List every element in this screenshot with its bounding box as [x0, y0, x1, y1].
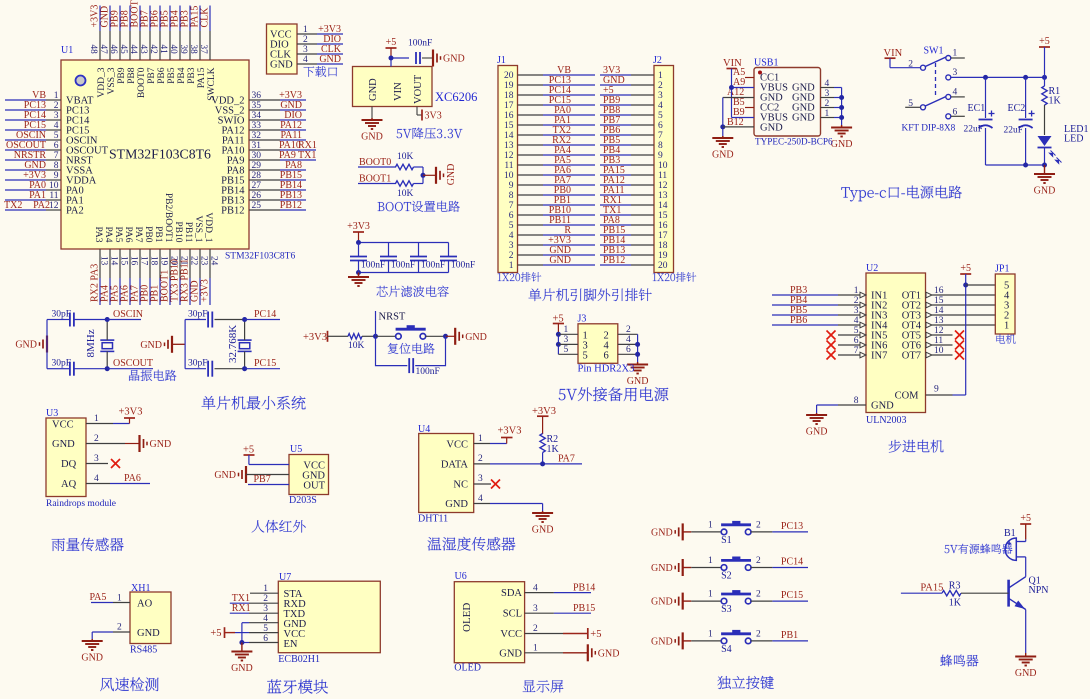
svg-text:AO: AO: [137, 599, 153, 610]
svg-text:+5: +5: [243, 445, 254, 456]
svg-text:5: 5: [583, 350, 588, 361]
wire gnd vertical: [241, 623, 243, 643]
svg-text:NRST: NRST: [379, 312, 406, 323]
svg-text:41: 41: [159, 45, 169, 55]
label fengsujiance: [100, 677, 159, 691]
svg-text:SDA: SDA: [501, 588, 522, 599]
ground: [171, 336, 173, 353]
label dulianjian: [717, 676, 773, 689]
U1 pin 36 (VDD_2) right wire: [249, 99, 280, 101]
svg-text:BOOT1: BOOT1: [359, 174, 391, 185]
svg-text:7: 7: [509, 201, 514, 211]
svg-text:EC2: EC2: [1008, 103, 1026, 114]
svg-text:33: 33: [252, 121, 262, 131]
svg-text:GND: GND: [651, 636, 673, 647]
svg-text:+3V3: +3V3: [200, 279, 211, 302]
svg-text:4: 4: [533, 583, 538, 593]
svg-text:PA4: PA4: [103, 226, 113, 242]
svg-text:14: 14: [504, 131, 514, 141]
push button S1: [683, 531, 692, 533]
svg-text:100nF: 100nF: [451, 261, 475, 271]
label J2 1X20 paizhen: [653, 272, 696, 282]
label lanyamokuai: [267, 679, 328, 693]
svg-text:1K: 1K: [1049, 96, 1062, 107]
svg-text:1: 1: [708, 520, 713, 530]
svg-text:26: 26: [252, 191, 262, 201]
svg-text:1: 1: [708, 590, 713, 600]
U1 pin 28 (PB15) right wire: [249, 179, 280, 181]
svg-text:7: 7: [658, 131, 663, 141]
svg-text:VOUT: VOUT: [413, 74, 424, 104]
push button S3: [683, 600, 692, 602]
svg-text:+5: +5: [1020, 513, 1031, 524]
svg-text:GND: GND: [52, 439, 75, 450]
U1 pin 32 (PA11) right wire: [249, 139, 280, 141]
svg-text:2: 2: [908, 60, 913, 70]
U1 pin 35 (VSS_2) right wire: [249, 109, 280, 111]
svg-text:PB7: PB7: [147, 67, 157, 84]
svg-text:1: 1: [953, 49, 958, 59]
wire switch pin3 to rail: [951, 76, 1045, 78]
module U7 body: [278, 581, 380, 653]
U2 pin 10 (OT7): [926, 352, 932, 358]
svg-text:30pF: 30pF: [52, 310, 72, 320]
U2 pin 14 (OT3): [926, 312, 932, 318]
svg-text:100nF: 100nF: [416, 367, 440, 377]
svg-text:30pF: 30pF: [188, 310, 208, 320]
svg-text:10: 10: [504, 171, 514, 181]
svg-text:48: 48: [89, 45, 99, 55]
label danpianji zuixiaoxitong: [202, 396, 306, 410]
ground: [231, 651, 252, 653]
svg-text:8: 8: [658, 141, 663, 151]
U2 pin 12 (OT5): [926, 332, 932, 338]
svg-text:R3: R3: [949, 581, 961, 592]
U5 OUT wire PB7: [248, 484, 289, 486]
svg-text:VDD_3: VDD_3: [97, 67, 107, 97]
svg-text:S1: S1: [721, 535, 732, 546]
U1 pin 15 (PA5) bottom wire: [119, 249, 121, 278]
wire VOUT to 3V3: [416, 107, 418, 116]
svg-text:100nF: 100nF: [391, 261, 415, 271]
svg-text:2: 2: [509, 251, 514, 261]
svg-text:GND: GND: [651, 563, 673, 574]
svg-text:2: 2: [756, 520, 761, 530]
wire junction: [422, 167, 424, 184]
label wenshidu chuanganqi: [428, 537, 516, 551]
svg-text:4: 4: [658, 101, 663, 111]
svg-text:32: 32: [252, 131, 262, 141]
U2 pin 15 (OT2): [926, 302, 932, 308]
svg-text:15: 15: [658, 211, 668, 221]
svg-text:1: 1: [708, 556, 713, 566]
svg-text:PA6: PA6: [124, 473, 141, 484]
svg-text:J1: J1: [497, 55, 506, 66]
svg-text:GND: GND: [150, 439, 172, 450]
label dianji: [996, 334, 1015, 344]
U2 pin 11 (OT6): [926, 342, 932, 348]
svg-text:OLED: OLED: [454, 663, 481, 674]
svg-text:1: 1: [533, 644, 538, 654]
svg-text:1: 1: [509, 261, 514, 271]
capacitor EC2 22uF: [1025, 77, 1027, 118]
U1 pin 23 (VSS_1) bottom wire: [199, 249, 201, 278]
U1 pin 34 (SWIO) right wire: [249, 119, 280, 121]
ground: [446, 335, 456, 337]
svg-text:3: 3: [478, 474, 483, 484]
svg-text:2: 2: [94, 434, 99, 444]
resistor 10K upper: [396, 164, 414, 169]
svg-text:NPN: NPN: [1029, 585, 1049, 596]
U1 pin 27 (PB14) right wire: [249, 189, 280, 191]
wire top rail: [359, 242, 449, 244]
svg-text:9: 9: [658, 151, 663, 161]
U1 pin 12 (PA2) left wire: [5, 209, 46, 211]
svg-text:2: 2: [756, 556, 761, 566]
svg-text:+5: +5: [590, 629, 601, 640]
svg-text:S4: S4: [721, 644, 732, 655]
svg-text:PB7: PB7: [254, 474, 271, 485]
svg-text:S3: S3: [721, 604, 732, 615]
svg-text:PA3: PA3: [93, 226, 103, 242]
U1 pin 44 (BOOT0) top wire: [139, 6, 141, 32]
label J1 1X20 paizhen: [498, 272, 541, 282]
push button S4: [683, 640, 692, 642]
svg-text:PB12: PB12: [280, 200, 302, 211]
svg-text:9: 9: [54, 171, 59, 181]
svg-text:15: 15: [504, 121, 514, 131]
svg-text:13: 13: [658, 191, 668, 201]
svg-text:GND: GND: [712, 150, 734, 161]
svg-text:S2: S2: [721, 571, 732, 582]
ground: [138, 435, 140, 452]
MCU U1 body: [61, 60, 249, 249]
resistor R2 1K: [540, 434, 545, 453]
svg-text:17: 17: [504, 101, 514, 111]
ground: [435, 167, 437, 184]
svg-text:TX2: TX2: [4, 200, 22, 211]
svg-text:2: 2: [478, 454, 483, 464]
U1 pin 47 (VSS_3) top wire: [109, 6, 111, 32]
power +5 port: [1020, 523, 1031, 525]
svg-text:1: 1: [1004, 321, 1009, 332]
svg-text:40: 40: [169, 45, 179, 55]
svg-text:GND: GND: [792, 113, 815, 124]
download port pin 2 wire: [297, 43, 317, 45]
label yuliangchuanganqi: [52, 538, 124, 551]
svg-text:14: 14: [658, 201, 668, 211]
svg-text:GND: GND: [231, 663, 253, 674]
svg-text:GND: GND: [760, 123, 783, 134]
svg-text:GND: GND: [806, 427, 828, 438]
U2 pin 4 (IN4): [860, 322, 866, 328]
wire VIN to VBUS pins: [731, 69, 733, 118]
svg-text:44: 44: [129, 45, 139, 55]
svg-text:STM32F103C8T6: STM32F103C8T6: [225, 252, 295, 262]
svg-text:29: 29: [252, 161, 262, 171]
svg-text:11: 11: [658, 171, 667, 181]
svg-text:AQ: AQ: [61, 479, 77, 490]
svg-text:GND: GND: [627, 376, 649, 387]
svg-text:CLK: CLK: [200, 7, 211, 28]
svg-text:PB9: PB9: [117, 67, 127, 84]
svg-text:OT7: OT7: [902, 351, 921, 362]
svg-text:GND: GND: [319, 54, 341, 65]
U1 pin 11 (PA1) left wire: [5, 199, 46, 201]
svg-text:DATA: DATA: [441, 460, 469, 471]
svg-text:PB12: PB12: [603, 255, 625, 266]
svg-text:NC: NC: [453, 480, 468, 491]
net label OSCIN wire: [107, 319, 141, 321]
svg-text:DHT11: DHT11: [418, 514, 448, 525]
U1 pin 38 (PA15) top wire: [199, 6, 201, 32]
svg-text:BOOT0: BOOT0: [359, 157, 391, 168]
svg-text:B1: B1: [1004, 528, 1016, 539]
svg-text:PC15: PC15: [254, 358, 276, 369]
driver U2 body: [866, 273, 926, 413]
svg-text:18: 18: [149, 256, 159, 266]
svg-text:6: 6: [604, 350, 609, 361]
svg-text:+5: +5: [210, 628, 221, 639]
label rentihongwai: [252, 520, 306, 533]
ground: [46, 336, 48, 353]
U1 pin 14 (PA4) bottom wire: [109, 249, 111, 278]
svg-text:OLED: OLED: [461, 603, 473, 632]
svg-text:GND: GND: [831, 139, 853, 150]
U1 pin 10 (PA0) left wire: [5, 189, 46, 191]
ground: [245, 466, 247, 483]
svg-text:18: 18: [504, 91, 514, 101]
svg-text:PA5: PA5: [90, 592, 107, 603]
U1 pin 29 (PA8) right wire: [249, 169, 280, 171]
svg-text:PA7: PA7: [133, 226, 143, 242]
connector XH1 body: [130, 592, 171, 644]
U5 VCC wire: [249, 464, 289, 466]
U1 pin 30 (PA9) right wire: [249, 159, 280, 161]
U1 pin 22 (PB11) bottom wire: [189, 249, 191, 278]
svg-text:GND: GND: [651, 597, 673, 608]
ground: [371, 118, 373, 120]
svg-text:2: 2: [756, 629, 761, 639]
svg-text:2: 2: [533, 624, 538, 634]
svg-text:J3: J3: [578, 314, 587, 325]
svg-text:22uF: 22uF: [964, 125, 984, 135]
svg-text:JP1: JP1: [995, 264, 1009, 275]
svg-text:+5: +5: [960, 263, 971, 274]
svg-text:12: 12: [49, 201, 59, 211]
U1 pin 6 (OSCOUT) left wire: [5, 149, 46, 151]
label 5V waijie beiyongdianyuan: [559, 387, 669, 401]
svg-text:GND: GND: [1034, 186, 1056, 197]
U1 pin 46 (PB9) top wire: [119, 6, 121, 32]
svg-text:IN7: IN7: [871, 351, 887, 362]
svg-text:PC15: PC15: [781, 590, 803, 601]
capacitor 100nF filter 2: [388, 243, 390, 257]
wire bottom rail: [986, 164, 1045, 166]
svg-text:PB11: PB11: [183, 222, 193, 243]
svg-text:TYPEC-250D-BCP6: TYPEC-250D-BCP6: [755, 137, 833, 147]
wire GND pin: [371, 107, 373, 119]
svg-text:Pin HDR2X3: Pin HDR2X3: [578, 364, 635, 375]
label bujindianji: [889, 440, 944, 453]
svg-text:34: 34: [252, 111, 262, 121]
ground: [1044, 165, 1046, 174]
svg-text:20: 20: [504, 71, 514, 81]
U1 pin 26 (PB13) right wire: [249, 199, 280, 201]
svg-text:10K: 10K: [397, 189, 414, 199]
svg-text:PB4: PB4: [177, 67, 187, 84]
svg-text:6: 6: [54, 141, 59, 151]
net label PC14 wire: [245, 319, 281, 321]
svg-text:25: 25: [252, 201, 262, 211]
wire emitter to ground: [1025, 612, 1027, 653]
svg-text:GND: GND: [140, 340, 162, 351]
svg-text:PB12: PB12: [221, 206, 244, 217]
svg-text:+5: +5: [386, 37, 397, 48]
U1 pin 16 (PA6) bottom wire: [129, 249, 131, 278]
svg-text:12: 12: [658, 181, 668, 191]
svg-text:10: 10: [49, 181, 59, 191]
svg-text:2: 2: [263, 594, 268, 604]
svg-text:GND: GND: [445, 499, 468, 510]
svg-text:9: 9: [934, 385, 939, 395]
svg-text:VIN: VIN: [884, 48, 903, 59]
svg-text:VSS_1: VSS_1: [193, 216, 203, 243]
svg-text:42: 42: [149, 45, 159, 55]
capacitor 100nF filter 4: [448, 243, 450, 257]
U2 pin 5 (IN5): [860, 332, 866, 338]
svg-text:4: 4: [509, 231, 514, 241]
U1 pin 37 (SWCLK) top wire: [209, 6, 211, 32]
svg-text:37: 37: [199, 45, 209, 55]
svg-text:PA7: PA7: [558, 454, 575, 465]
connector P? download port body: [267, 24, 298, 74]
svg-text:GND: GND: [465, 332, 487, 343]
svg-text:DQ: DQ: [61, 459, 77, 470]
svg-text:2: 2: [54, 101, 59, 111]
svg-text:100nF: 100nF: [421, 261, 445, 271]
svg-text:STM32F103C8T6: STM32F103C8T6: [109, 147, 211, 162]
svg-text:2: 2: [756, 590, 761, 600]
svg-text:30pF: 30pF: [188, 359, 208, 369]
svg-text:PA15: PA15: [920, 583, 943, 594]
resistor R3 1K: [942, 591, 961, 596]
LED1: [1038, 136, 1052, 146]
svg-text:GND: GND: [443, 54, 465, 65]
svg-text:19: 19: [658, 251, 668, 261]
svg-text:PB2/BOOT1: PB2/BOOT1: [163, 193, 173, 243]
svg-text:SCL: SCL: [503, 609, 522, 620]
U2 pin 16 (OT1): [926, 292, 932, 298]
svg-text:16: 16: [129, 256, 139, 266]
svg-text:OSCOUT: OSCOUT: [113, 358, 153, 369]
svg-text:ECB02H1: ECB02H1: [278, 654, 320, 665]
regulator U? XC6206 body: [353, 67, 433, 107]
U2 pin 13 (OT4): [926, 322, 932, 328]
svg-text:19: 19: [504, 81, 514, 91]
svg-text:RX1: RX1: [232, 603, 251, 614]
ground: [682, 632, 684, 649]
U1 pin 3 (PC14) left wire: [5, 119, 46, 121]
svg-text:VSS_3: VSS_3: [107, 67, 117, 94]
svg-text:28: 28: [252, 171, 262, 181]
svg-text:17: 17: [139, 256, 149, 266]
U1 pin 1 (VBAT) left wire: [5, 99, 46, 101]
svg-text:GND: GND: [446, 164, 457, 186]
svg-text:18: 18: [658, 241, 668, 251]
U2 pin 7 (IN7): [860, 352, 866, 358]
svg-text:RS485: RS485: [130, 645, 157, 656]
label 5V jiangya 3.3V: [397, 128, 463, 139]
svg-text:23: 23: [199, 256, 209, 266]
svg-text:GND: GND: [81, 653, 103, 664]
svg-text:3: 3: [564, 335, 569, 345]
svg-text:6: 6: [658, 121, 663, 131]
ground: [358, 273, 360, 278]
svg-text:3V3: 3V3: [425, 111, 442, 122]
U1 pin 21 (PB10) bottom wire: [179, 249, 181, 278]
svg-text:PB0: PB0: [143, 226, 153, 243]
svg-text:VCC: VCC: [446, 439, 468, 450]
U1 pin 7 (NRST) left wire: [5, 159, 46, 161]
wire +5 to JP1 pin5: [966, 284, 996, 286]
svg-text:+3V3: +3V3: [347, 221, 370, 232]
svg-text:3: 3: [658, 91, 663, 101]
U1 pin 20 (PB2/BOOT1) bottom wire: [169, 249, 171, 278]
label xianshiping: [523, 680, 564, 692]
svg-text:16: 16: [658, 221, 668, 231]
svg-text:22: 22: [189, 256, 199, 266]
svg-text:PA5: PA5: [113, 226, 123, 242]
net label PC15 wire: [245, 368, 281, 370]
U1 pin 2 (PC13) left wire: [5, 109, 46, 111]
U1 pin 39 (PB3) top wire: [189, 6, 191, 32]
ground: [722, 136, 724, 138]
svg-text:PA2: PA2: [66, 206, 84, 217]
svg-text:1: 1: [564, 325, 569, 335]
svg-text:4: 4: [54, 121, 59, 131]
svg-text:PB15: PB15: [573, 603, 595, 614]
svg-text:PC14: PC14: [254, 309, 276, 320]
wire left vertical: [46, 320, 48, 369]
svg-text:38: 38: [189, 45, 199, 55]
svg-text:9: 9: [509, 181, 514, 191]
svg-text:PB6: PB6: [790, 315, 807, 326]
svg-text:27: 27: [252, 181, 262, 191]
svg-text:100nF: 100nF: [361, 261, 385, 271]
svg-text:LED: LED: [1064, 134, 1083, 145]
svg-text:36: 36: [252, 91, 262, 101]
svg-text:31: 31: [252, 141, 262, 151]
svg-text:39: 39: [179, 45, 189, 55]
svg-text:+3V3: +3V3: [303, 332, 327, 343]
svg-text:43: 43: [139, 45, 149, 55]
svg-text:2: 2: [117, 623, 122, 633]
U1 pin 40 (PB4) top wire: [179, 6, 181, 32]
net label PA15 wire: [901, 592, 942, 594]
ground: [841, 125, 843, 128]
svg-text:GND: GND: [270, 60, 293, 71]
svg-text:10K: 10K: [397, 152, 414, 162]
U1 pin 24 (VDD_1) bottom wire: [209, 249, 211, 278]
svg-text:COM: COM: [895, 391, 920, 402]
svg-text:U1: U1: [61, 45, 73, 56]
U2 pin 6 (IN6): [860, 342, 866, 348]
wire: [390, 58, 392, 67]
label BOOT shezhidianlu: [378, 201, 460, 212]
svg-text:U6: U6: [455, 571, 467, 582]
svg-text:GND: GND: [361, 132, 383, 143]
